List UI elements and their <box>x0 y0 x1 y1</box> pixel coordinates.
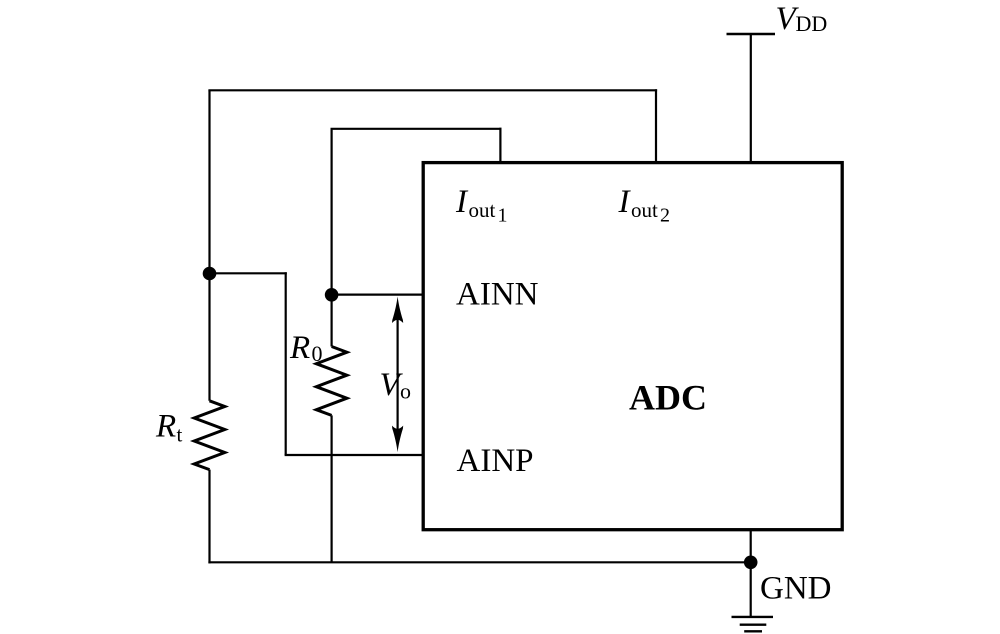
wire: GND lead from box bottom <box>750 530 752 617</box>
wire: R0 bottom lead to ground rail <box>331 415 333 562</box>
svg-text:AINN: AINN <box>456 277 539 313</box>
svg-text:AINP: AINP <box>457 443 534 479</box>
svg-text:DD: DD <box>796 11 828 36</box>
wire: node A to corner right <box>210 272 287 274</box>
resistor Rt <box>194 401 225 470</box>
ground symbol <box>732 617 774 631</box>
svg-text:GND: GND <box>760 571 832 607</box>
node GND junction dot <box>744 556 758 570</box>
ADC block U1 <box>423 163 842 530</box>
wire: from node B up inner loop <box>331 129 333 295</box>
node B junction dot <box>325 288 339 302</box>
power VDD bar <box>727 33 776 36</box>
Vo arrowhead up <box>392 297 403 324</box>
wire: AINN horizontal from node B into box <box>332 294 424 296</box>
wire: down to I_out1 pin <box>499 128 501 163</box>
wire: R0 top lead <box>331 294 333 347</box>
Vo measurement arrow shaft <box>397 314 399 434</box>
svg-text:I: I <box>455 184 469 220</box>
Vo arrowhead down <box>392 426 403 453</box>
svg-text:I: I <box>618 184 632 220</box>
wire: down to I_out2 pin <box>655 89 657 162</box>
svg-text:1: 1 <box>498 205 508 227</box>
wire: top horizontal of outer loop <box>208 89 657 91</box>
svg-text:o: o <box>400 379 411 404</box>
svg-text:R: R <box>155 409 176 445</box>
resistor R0 <box>316 347 347 416</box>
wire: Rt bottom lead <box>208 470 210 564</box>
svg-text:out: out <box>469 198 496 222</box>
svg-text:t: t <box>177 423 183 447</box>
wire: top horizontal of inner loop <box>331 128 502 130</box>
svg-text:out: out <box>631 198 658 222</box>
svg-text:R: R <box>289 330 310 366</box>
wire: Rt top lead <box>208 273 210 401</box>
wire: bottom ground rail <box>208 561 750 563</box>
svg-text:0: 0 <box>312 341 323 366</box>
svg-text:ADC: ADC <box>629 378 707 418</box>
wire: from node A up left side of loop <box>208 90 210 273</box>
wire: VDD to box top <box>750 34 752 163</box>
node A junction dot <box>203 267 217 281</box>
wire: AINP horizontal into box <box>285 454 424 456</box>
wire: vertical down to AINP row <box>285 272 287 455</box>
svg-text:2: 2 <box>660 205 670 227</box>
